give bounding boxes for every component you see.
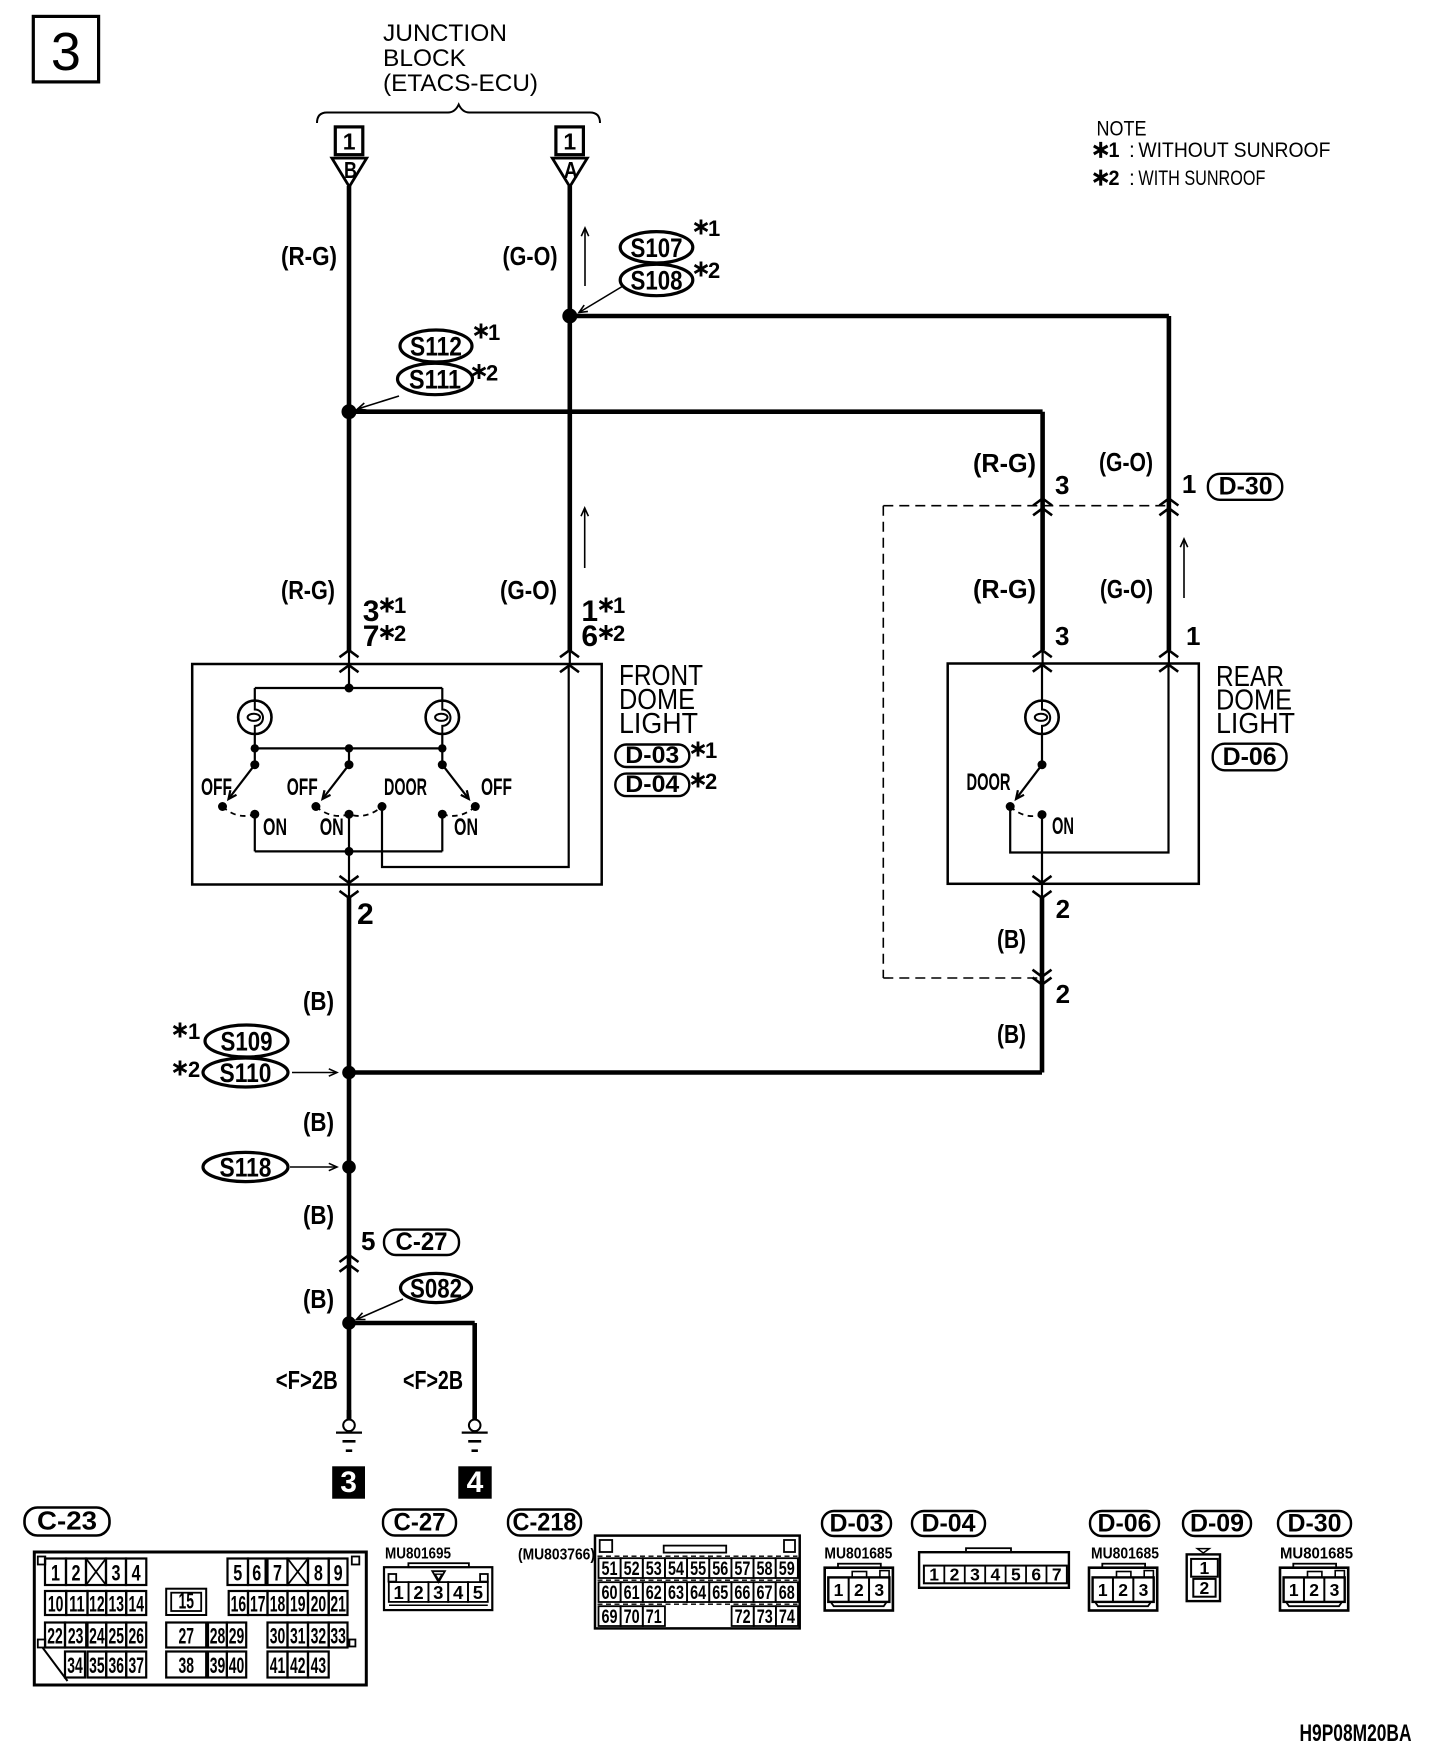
- ground number 3: [332, 1466, 365, 1498]
- svg-text:27: 27: [178, 1624, 194, 1649]
- svg-text:38: 38: [178, 1653, 194, 1678]
- rear switch arm: [1016, 765, 1042, 799]
- svg-text:11: 11: [69, 1592, 85, 1617]
- svg-text:70: 70: [624, 1607, 640, 1628]
- svg-text:40: 40: [229, 1653, 245, 1678]
- svg-text:26: 26: [128, 1624, 144, 1649]
- splice S110: [203, 1058, 288, 1087]
- svg-text:WITHOUT SUNROOF: WITHOUT SUNROOF: [1138, 138, 1330, 162]
- connector label C-218: [508, 1510, 581, 1536]
- svg-text:3: 3: [874, 1580, 884, 1600]
- svg-text:65: 65: [712, 1583, 728, 1604]
- dashed harness boundary top: [883, 505, 1169, 507]
- svg-text:S082: S082: [410, 1274, 462, 1304]
- svg-text:D-03: D-03: [625, 742, 679, 769]
- junction node on wire G-O: [562, 309, 577, 324]
- front ground bus junction: [345, 847, 354, 856]
- page number box 3: [33, 16, 98, 82]
- front internal wire pin3 to lamp bus: [348, 664, 350, 688]
- svg-text:1: 1: [1186, 621, 1200, 651]
- svg-text:(MU803766): (MU803766): [518, 1547, 595, 1564]
- svg-text:30: 30: [270, 1624, 286, 1649]
- svg-text:ON: ON: [1052, 813, 1074, 840]
- svg-text:1: 1: [563, 129, 576, 155]
- svg-text:7: 7: [1052, 1564, 1062, 1584]
- connector chevrons rear harness crossing: [1033, 970, 1052, 977]
- svg-text:74: 74: [779, 1607, 795, 1628]
- connector D-09 pinout: [1187, 1554, 1220, 1601]
- svg-text:OFF: OFF: [201, 774, 232, 801]
- front switch bus: [255, 747, 442, 749]
- arrow from S108 to junction: [579, 286, 623, 313]
- svg-text:(G-O): (G-O): [500, 575, 557, 605]
- svg-text:(G-O): (G-O): [1100, 574, 1153, 604]
- arrow from S118 to junction: [290, 1166, 337, 1168]
- svg-text:1: 1: [51, 1560, 60, 1585]
- svg-text:(R-G): (R-G): [973, 574, 1036, 604]
- svg-text:66: 66: [734, 1583, 750, 1604]
- svg-text:2: 2: [1109, 167, 1120, 190]
- svg-text:6: 6: [581, 620, 598, 653]
- svg-text:43: 43: [311, 1653, 327, 1678]
- front switch 3 OFF contact: [471, 802, 480, 811]
- arrow from S082 to junction: [357, 1299, 404, 1320]
- svg-text:2: 2: [950, 1564, 960, 1584]
- junction node at S109/S110: [342, 1066, 356, 1080]
- svg-text:1: 1: [613, 593, 625, 618]
- rear dome light box: [948, 664, 1199, 884]
- svg-text:18: 18: [270, 1592, 286, 1617]
- note marker *1 for S109: [174, 1023, 187, 1038]
- front switch 2 OFF contact: [311, 802, 320, 811]
- note marker *2 for S110: [174, 1061, 187, 1076]
- svg-text:S112: S112: [410, 332, 462, 362]
- front switch 1 ON wire down: [254, 814, 256, 851]
- svg-text:MU801685: MU801685: [824, 1546, 892, 1563]
- front dome light box: [192, 664, 602, 885]
- svg-text:C-27: C-27: [396, 1228, 448, 1256]
- svg-text:(B): (B): [303, 1284, 334, 1314]
- front switch bus junctions: [251, 744, 259, 752]
- svg-text:3: 3: [1330, 1580, 1340, 1600]
- connector chevrons rear pin 3 entry: [1033, 650, 1052, 657]
- svg-text:MU801685: MU801685: [1091, 1546, 1159, 1563]
- svg-text:2: 2: [708, 258, 720, 283]
- svg-text:S118: S118: [220, 1153, 272, 1183]
- splice S118: [203, 1152, 288, 1181]
- ground symbol 4: [472, 1410, 477, 1420]
- splice S082: [401, 1273, 472, 1302]
- front switch 1 common stub: [254, 748, 256, 764]
- connector label D-03 with *1: [615, 745, 689, 768]
- note marker *2 for S108: [695, 262, 708, 277]
- front switch 2 ON wire down: [348, 814, 350, 851]
- connector C-218 pinout: [595, 1536, 800, 1629]
- wire to second ground: [349, 1321, 475, 1326]
- front switch 1 dashed throw arc: [223, 807, 255, 816]
- svg-text:ON: ON: [263, 814, 287, 841]
- svg-text:(B): (B): [997, 924, 1026, 954]
- svg-text:D-30: D-30: [1219, 473, 1273, 501]
- svg-text:1: 1: [343, 129, 356, 155]
- svg-text:1: 1: [488, 320, 500, 345]
- svg-text:5: 5: [361, 1226, 375, 1256]
- front switch 1 OFF contact: [218, 802, 227, 811]
- svg-text:MU801685: MU801685: [1280, 1546, 1353, 1563]
- rear switch dashed throw arc: [1010, 807, 1042, 817]
- connector label C-27 inline: [384, 1230, 459, 1255]
- connector C-23 pinout: [34, 1552, 366, 1685]
- svg-text:17: 17: [250, 1592, 266, 1617]
- svg-text:(B): (B): [303, 1200, 334, 1230]
- svg-text:3: 3: [112, 1560, 121, 1585]
- svg-text:2: 2: [188, 1057, 200, 1082]
- svg-text:2: 2: [413, 1582, 423, 1603]
- svg-text:D-09: D-09: [1190, 1510, 1244, 1538]
- svg-text:13: 13: [108, 1592, 124, 1617]
- svg-text:63: 63: [668, 1583, 684, 1604]
- svg-text:ON: ON: [454, 814, 478, 841]
- svg-text:5: 5: [473, 1582, 483, 1603]
- svg-text:OFF: OFF: [481, 774, 512, 801]
- svg-text::: :: [1129, 139, 1135, 162]
- svg-text::: :: [1129, 167, 1135, 190]
- svg-text:1: 1: [705, 738, 717, 763]
- rear switch ON contact: [1038, 810, 1047, 819]
- wire R-G horizontal to rear dome light: [349, 409, 1043, 414]
- front lamp 2 stub top: [441, 688, 443, 701]
- front lamp 1: [238, 701, 271, 734]
- wire B horizontal to splice S110: [349, 1070, 1042, 1075]
- connector label D-06: [1213, 744, 1287, 771]
- svg-text:4: 4: [467, 1466, 484, 1499]
- svg-text:72: 72: [735, 1607, 751, 1628]
- dashed harness boundary left side: [882, 506, 884, 978]
- svg-text:15: 15: [178, 1589, 194, 1614]
- svg-text:MU801695: MU801695: [385, 1546, 451, 1563]
- front switch 2 dashed throw arc: [316, 807, 382, 816]
- front lamp bus: [255, 687, 442, 689]
- svg-text:3: 3: [1055, 621, 1069, 651]
- note marker *2 for S111: [473, 364, 486, 379]
- junction node on wire R-G: [342, 404, 357, 419]
- svg-text:D-30: D-30: [1288, 1510, 1342, 1538]
- svg-text:BLOCK: BLOCK: [383, 45, 466, 72]
- svg-text:(G-O): (G-O): [1099, 447, 1153, 477]
- svg-text:59: 59: [779, 1559, 795, 1580]
- svg-text:56: 56: [712, 1559, 728, 1580]
- wire R-G down right side to rear dome light: [1040, 412, 1045, 650]
- front ground bus: [255, 850, 442, 852]
- connector label C-27 bottom: [383, 1510, 456, 1536]
- front switch 3 ON wire down: [441, 814, 443, 851]
- ground symbol 3: [347, 1410, 352, 1420]
- svg-text:NOTE: NOTE: [1097, 117, 1147, 140]
- svg-text:(R-G): (R-G): [281, 241, 337, 271]
- svg-text:24: 24: [89, 1624, 105, 1649]
- svg-text:1: 1: [1098, 1580, 1108, 1600]
- rear pin 2 wire inside box: [1041, 815, 1043, 898]
- svg-text:(ETACS-ECU): (ETACS-ECU): [383, 70, 538, 97]
- svg-text:2: 2: [72, 1560, 81, 1585]
- svg-text:42: 42: [290, 1653, 306, 1678]
- svg-text:68: 68: [779, 1583, 795, 1604]
- svg-text:20: 20: [311, 1592, 327, 1617]
- svg-text:(G-O): (G-O): [503, 241, 558, 271]
- svg-text:61: 61: [624, 1583, 640, 1604]
- svg-text:C-23: C-23: [37, 1506, 97, 1536]
- svg-text:55: 55: [690, 1559, 706, 1580]
- connector chevrons front pin 3/7 entry: [340, 650, 359, 657]
- front switch 3 arm: [442, 765, 469, 799]
- front switch 1 arm: [229, 765, 255, 799]
- svg-text:DOOR: DOOR: [384, 774, 427, 801]
- svg-text:1: 1: [834, 1580, 844, 1600]
- svg-text:WITH SUNROOF: WITH SUNROOF: [1138, 166, 1265, 190]
- svg-text:12: 12: [89, 1592, 105, 1617]
- wire B from front dome light down to ground: [347, 898, 352, 1420]
- svg-text:5: 5: [233, 1560, 242, 1585]
- svg-text:2: 2: [1056, 979, 1070, 1009]
- connector label D-06 bottom: [1090, 1511, 1159, 1536]
- svg-text:51: 51: [602, 1559, 618, 1580]
- connector label D-09 bottom: [1183, 1511, 1251, 1536]
- connector label D-03 bottom: [822, 1511, 891, 1536]
- svg-text:S110: S110: [220, 1058, 272, 1088]
- connector D-04 pinout: [919, 1552, 1069, 1588]
- svg-text:62: 62: [646, 1583, 662, 1604]
- svg-text:4: 4: [132, 1560, 142, 1585]
- svg-text:39: 39: [210, 1653, 226, 1678]
- svg-text:4: 4: [991, 1564, 1001, 1584]
- connector label D-04 with *2: [615, 774, 689, 797]
- svg-text:D-06: D-06: [1223, 743, 1277, 771]
- svg-text:54: 54: [668, 1559, 684, 1580]
- svg-text:JUNCTION: JUNCTION: [383, 20, 507, 47]
- svg-text:LIGHT: LIGHT: [1216, 708, 1295, 740]
- svg-text:35: 35: [89, 1653, 105, 1678]
- front switch 3 common stub: [441, 748, 443, 764]
- connector label D-30 bottom: [1278, 1511, 1351, 1536]
- svg-text:(B): (B): [303, 986, 334, 1016]
- front switch 2 DOOR contact: [378, 802, 387, 811]
- svg-text:29: 29: [229, 1624, 245, 1649]
- note marker *1 for S107: [695, 220, 708, 235]
- svg-text:C-27: C-27: [394, 1509, 446, 1537]
- svg-text:6: 6: [1031, 1564, 1041, 1584]
- svg-text:(R-G): (R-G): [281, 575, 335, 605]
- front lamp 1 stub bottom: [254, 734, 256, 748]
- svg-text:3: 3: [340, 1466, 357, 1499]
- svg-text:71: 71: [646, 1607, 662, 1628]
- svg-text:D-04: D-04: [922, 1510, 976, 1538]
- rear internal wire pin3 to lamp: [1041, 664, 1043, 701]
- svg-text:4: 4: [453, 1582, 464, 1603]
- front lamp bus junction: [345, 684, 354, 693]
- connector label D-04 bottom: [912, 1511, 985, 1536]
- rear DOOR wire to pin 1: [1010, 664, 1168, 853]
- splice S111: [398, 363, 473, 394]
- svg-text:3: 3: [970, 1564, 980, 1584]
- svg-text:21: 21: [330, 1592, 346, 1617]
- svg-text:31: 31: [290, 1624, 306, 1649]
- rear lamp to switch common: [1041, 734, 1043, 765]
- connector chevrons rear pin 1 entry: [1159, 650, 1178, 657]
- svg-text:B: B: [344, 157, 357, 183]
- ground number 4: [458, 1466, 491, 1498]
- front lamp 1 stub top: [254, 688, 256, 701]
- svg-text:S108: S108: [631, 266, 683, 296]
- svg-text:28: 28: [210, 1624, 226, 1649]
- svg-text:1: 1: [929, 1564, 939, 1584]
- rear lamp: [1025, 701, 1058, 734]
- svg-text:2: 2: [1200, 1578, 1210, 1598]
- svg-text:1: 1: [708, 216, 720, 241]
- connector chevrons front pin 2 exit: [340, 876, 359, 883]
- svg-text:36: 36: [108, 1653, 124, 1678]
- svg-text:1: 1: [1182, 469, 1196, 499]
- svg-text:DOOR: DOOR: [967, 769, 1011, 796]
- connector D-03 pinout: [825, 1568, 893, 1611]
- arrow from S110 to junction: [292, 1072, 337, 1074]
- svg-text:2: 2: [613, 621, 625, 646]
- svg-text:1: 1: [1289, 1580, 1299, 1600]
- front switch 2 arm: [323, 765, 350, 799]
- connector label D-30 top: [1208, 474, 1282, 500]
- svg-text:D-03: D-03: [830, 1510, 884, 1538]
- connector chevrons D-30 pin 3: [1033, 499, 1052, 506]
- junction block terminal 1-B: [335, 127, 363, 155]
- wire R-G from terminal B down to front dome light: [347, 186, 352, 651]
- wire B from rear dome light down: [1040, 898, 1045, 1073]
- svg-text:64: 64: [690, 1583, 706, 1604]
- svg-text:37: 37: [128, 1653, 144, 1678]
- svg-text:1: 1: [188, 1019, 200, 1044]
- svg-text:S111: S111: [409, 365, 461, 395]
- svg-text:2: 2: [486, 361, 498, 386]
- connector chevrons D-30 pin 1: [1159, 499, 1178, 506]
- svg-text:8: 8: [314, 1560, 323, 1585]
- svg-text:67: 67: [757, 1583, 773, 1604]
- svg-text:(B): (B): [303, 1107, 334, 1137]
- svg-text:<F>2B: <F>2B: [276, 1365, 338, 1395]
- svg-text:5: 5: [1011, 1564, 1021, 1584]
- rear switch DOOR contact: [1006, 802, 1015, 811]
- direction arrow beside rear G-O wire: [1183, 539, 1185, 598]
- front DOOR wire to pin 1/6: [382, 664, 569, 867]
- svg-text:<F>2B: <F>2B: [403, 1365, 463, 1395]
- splice S109: [205, 1025, 288, 1057]
- svg-text:OFF: OFF: [287, 774, 318, 801]
- connector label C-23: [25, 1508, 110, 1536]
- splice S107: [620, 232, 693, 263]
- svg-text:58: 58: [757, 1559, 773, 1580]
- direction arrow beside wire G-O top: [584, 228, 586, 286]
- front pin 2 wire inside box: [348, 851, 350, 898]
- svg-text:2: 2: [1118, 1580, 1128, 1600]
- svg-text:2: 2: [1056, 894, 1070, 924]
- connector D-30 pinout: [1280, 1568, 1348, 1611]
- direction arrow beside front G-O wire: [584, 508, 586, 568]
- note marker *1 for S112: [475, 324, 488, 339]
- svg-text:53: 53: [646, 1559, 662, 1580]
- svg-text:25: 25: [108, 1624, 124, 1649]
- svg-text:14: 14: [128, 1592, 144, 1617]
- svg-text:D-06: D-06: [1098, 1510, 1152, 1538]
- svg-text:A: A: [564, 157, 578, 183]
- svg-text:2: 2: [357, 898, 374, 931]
- svg-text:1: 1: [1109, 139, 1120, 162]
- svg-text:34: 34: [67, 1653, 83, 1678]
- svg-text:3: 3: [1055, 470, 1069, 500]
- wire G-O down right side to rear dome light: [1167, 316, 1172, 650]
- svg-text:32: 32: [311, 1624, 327, 1649]
- svg-text:1: 1: [394, 1582, 404, 1603]
- wire G-O horizontal to rear dome light: [570, 314, 1169, 319]
- front switch 2 common stub: [348, 748, 350, 764]
- svg-text:3: 3: [51, 22, 81, 82]
- splice S108: [620, 264, 693, 295]
- svg-text:52: 52: [624, 1559, 640, 1580]
- connector chevrons rear pin 2 exit: [1033, 876, 1052, 883]
- front switch 3 dashed throw arc: [442, 807, 475, 816]
- svg-text:D-04: D-04: [625, 771, 680, 798]
- dashed harness boundary bottom: [883, 977, 1042, 979]
- svg-text:69: 69: [602, 1607, 618, 1628]
- svg-text:7: 7: [273, 1560, 282, 1585]
- front switch ON contacts: [250, 810, 259, 819]
- front lamp 2 stub bottom: [441, 734, 443, 748]
- svg-text:16: 16: [231, 1592, 247, 1617]
- connector chevrons front pin 1/6 entry: [560, 650, 579, 657]
- connector C-27 pinout: [384, 1567, 492, 1610]
- svg-text:6: 6: [252, 1560, 261, 1585]
- svg-text:S107: S107: [631, 233, 683, 263]
- connector chevrons C-27 crossing: [340, 1255, 359, 1262]
- svg-text:19: 19: [290, 1592, 306, 1617]
- svg-text:3: 3: [1139, 1580, 1149, 1600]
- front lamp 2: [426, 701, 459, 734]
- svg-text:9: 9: [334, 1560, 343, 1585]
- svg-text:2: 2: [705, 769, 717, 794]
- svg-text:10: 10: [48, 1592, 64, 1617]
- svg-text:1: 1: [1200, 1558, 1210, 1578]
- svg-text:(R-G): (R-G): [973, 448, 1036, 478]
- svg-text:22: 22: [47, 1624, 63, 1649]
- svg-text:41: 41: [270, 1653, 286, 1678]
- svg-text:2: 2: [394, 621, 406, 646]
- junction block terminal 1-A: [556, 127, 584, 155]
- svg-text:ON: ON: [320, 814, 344, 841]
- svg-text:57: 57: [734, 1559, 750, 1580]
- svg-text:2: 2: [1309, 1580, 1319, 1600]
- svg-text:1: 1: [394, 593, 406, 618]
- svg-text:33: 33: [330, 1624, 346, 1649]
- connector D-06 pinout: [1089, 1568, 1157, 1611]
- svg-text:2: 2: [854, 1580, 864, 1600]
- junction node at S082: [342, 1316, 356, 1330]
- svg-text:C-218: C-218: [513, 1509, 577, 1537]
- brace under junction block title: [317, 105, 600, 124]
- svg-text:(B): (B): [997, 1019, 1026, 1049]
- splice S112: [400, 330, 472, 362]
- svg-text:60: 60: [602, 1583, 618, 1604]
- svg-text:73: 73: [757, 1607, 773, 1628]
- wire G-O from terminal A down to front dome light: [567, 186, 572, 651]
- svg-text:H9P08M20BA: H9P08M20BA: [1300, 1720, 1412, 1747]
- svg-text:LIGHT: LIGHT: [619, 708, 698, 740]
- arrow from S111 to junction: [358, 396, 400, 409]
